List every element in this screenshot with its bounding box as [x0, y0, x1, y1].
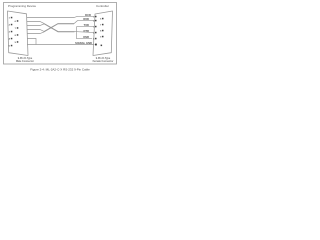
svg-text:SIGNAL GND: SIGNAL GND [75, 41, 92, 45]
svg-text:TXD: TXD [84, 23, 89, 27]
svg-text:Figure 2-4: ML-2A2-C-X RS-232: Figure 2-4: ML-2A2-C-X RS-232 9-Pin Cabl… [30, 68, 90, 72]
pin 5 [11, 45, 13, 47]
connector J1 (left 9-pin D-type shell) [8, 11, 29, 56]
pin 6 [102, 18, 104, 20]
pin 9 [102, 36, 104, 38]
svg-text:8: 8 [100, 31, 102, 33]
wire RTS pair upper [27, 23, 74, 31]
svg-text:4: 4 [9, 38, 11, 41]
pin 9 lower dot [101, 45, 103, 47]
pin 7 [17, 27, 19, 29]
wire CTS pair lower [27, 24, 74, 34]
wire signal ground [27, 44, 95, 46]
connector J2 (right 9-pin D-type shell) [93, 11, 113, 56]
pin 2 [11, 24, 13, 26]
wire RXD pair upper [27, 22, 75, 32]
svg-text:DTR: DTR [83, 29, 89, 33]
svg-text:9: 9 [15, 42, 17, 44]
svg-text:DCD: DCD [85, 13, 91, 17]
wire jumper vertical [77, 27, 93, 39]
svg-text:5: 5 [93, 39, 95, 41]
svg-text:6: 6 [15, 21, 17, 23]
svg-text:Female Connector: Female Connector [93, 60, 114, 63]
pin 2 [95, 20, 97, 22]
wire pin4 stub [27, 39, 36, 45]
svg-text:Controller: Controller [96, 4, 109, 8]
pin 1 [11, 17, 13, 19]
svg-text:1: 1 [9, 18, 11, 20]
pin 5 [95, 38, 97, 40]
svg-text:RXD: RXD [83, 17, 89, 21]
pin 5 ground dot [95, 44, 97, 46]
wire to RXD pin [74, 21, 95, 24]
svg-text:7: 7 [100, 25, 102, 27]
svg-text:Programming Device: Programming Device [8, 4, 36, 8]
wire to TXD pin [77, 26, 95, 28]
svg-text:3: 3 [9, 32, 11, 34]
wire to DTR pin [75, 31, 95, 34]
wire DCD [27, 16, 95, 17]
pin 3 [95, 26, 97, 28]
pin 4 [95, 32, 97, 34]
svg-text:7: 7 [15, 28, 17, 30]
pin 8 [17, 34, 19, 36]
pin 4 [11, 38, 13, 40]
diagram border frame [4, 3, 117, 65]
wire TXD pair lower [27, 24, 75, 32]
svg-text:5: 5 [9, 46, 11, 48]
svg-text:6: 6 [100, 19, 102, 21]
svg-text:9: 9 [100, 37, 102, 39]
svg-text:4: 4 [93, 32, 95, 35]
pin 8 [102, 30, 104, 32]
pin 9 [17, 41, 19, 43]
pin 1 [95, 16, 97, 17]
pin 7 [102, 24, 104, 26]
pin 6 [17, 20, 19, 22]
svg-text:8: 8 [15, 35, 17, 37]
svg-text:2: 2 [9, 25, 11, 27]
pin 3 [11, 31, 13, 33]
svg-text:DSR: DSR [83, 35, 89, 39]
svg-text:Male Connector: Male Connector [16, 60, 34, 63]
